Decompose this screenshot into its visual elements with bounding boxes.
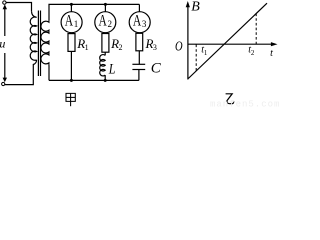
resistor R3 box	[136, 33, 143, 51]
branch3 top stub	[138, 4, 140, 11]
core line left	[37, 11, 39, 77]
primary exit wire	[5, 60, 37, 85]
resistor R1 box	[68, 34, 75, 52]
voltage arrow line lower	[4, 53, 6, 81]
ammeter A3	[129, 12, 150, 33]
t axis arrowhead	[271, 42, 278, 46]
graph B axis	[188, 3, 272, 79]
svg-text:2: 2	[119, 43, 123, 52]
svg-text:A: A	[65, 13, 73, 30]
source terminal bottom	[2, 82, 5, 85]
svg-text:1: 1	[204, 49, 208, 57]
svg-text:t: t	[270, 48, 273, 59]
resistor R2 box	[102, 34, 109, 53]
junction dot top bus A2	[104, 3, 107, 6]
branch1 top stub	[70, 4, 72, 11]
label jia (Chinese)	[66, 93, 75, 106]
wire top-left to primary	[6, 3, 31, 12]
ammeter A2	[95, 12, 116, 33]
secondary coil	[41, 21, 49, 65]
svg-text:O: O	[175, 38, 183, 54]
inductor L coil	[100, 55, 105, 76]
svg-text:3: 3	[153, 43, 157, 52]
branch1 stub circle to R1	[70, 32, 72, 35]
B axis arrowhead	[186, 1, 190, 7]
svg-text:manfen5.com: manfen5.com	[210, 99, 280, 108]
branch3 stub circle to R3	[138, 32, 140, 35]
secondary exit wire	[48, 64, 50, 80]
branch2 stub circle to R2	[104, 32, 106, 35]
branch1 bottom stub	[70, 51, 72, 80]
source terminal top	[3, 1, 6, 4]
svg-text:1: 1	[85, 43, 89, 52]
arrowhead up	[3, 4, 7, 9]
svg-text:A: A	[99, 13, 107, 30]
capacitor C bottom plate	[132, 69, 145, 71]
graph diagonal B-t line	[188, 3, 267, 78]
svg-text:u: u	[0, 36, 5, 50]
voltage arrow line upper	[4, 7, 6, 37]
label yi (Chinese)	[226, 94, 234, 104]
svg-text:3: 3	[142, 19, 147, 29]
junction dot top bus A1	[70, 3, 73, 6]
dashed line t2	[255, 14, 257, 45]
branch3 stub R3 to C	[138, 51, 140, 64]
primary coil	[30, 11, 36, 60]
svg-text:2: 2	[251, 49, 255, 57]
arrowhead down	[3, 78, 7, 83]
branch3 bottom stub	[138, 70, 140, 81]
svg-text:L: L	[108, 60, 116, 77]
svg-text:2: 2	[108, 19, 113, 29]
svg-text:C: C	[151, 61, 162, 77]
core line right	[40, 11, 42, 77]
svg-text:1: 1	[74, 19, 79, 29]
junction dot bottom bus branch2	[104, 79, 107, 82]
svg-text:B: B	[191, 0, 200, 15]
junction dot bottom bus branch1	[70, 79, 73, 82]
ammeter A1	[61, 12, 82, 33]
svg-text:A: A	[133, 13, 141, 30]
branch2 stub R2 to L	[104, 52, 106, 55]
secondary entry + top bus	[49, 4, 139, 20]
branch2 top stub	[104, 4, 106, 11]
graph t axis	[188, 43, 272, 45]
bottom bus	[49, 79, 139, 81]
capacitor C top plate	[132, 63, 145, 65]
dashed line t1	[195, 45, 197, 72]
branch2 bottom stub	[104, 75, 106, 80]
